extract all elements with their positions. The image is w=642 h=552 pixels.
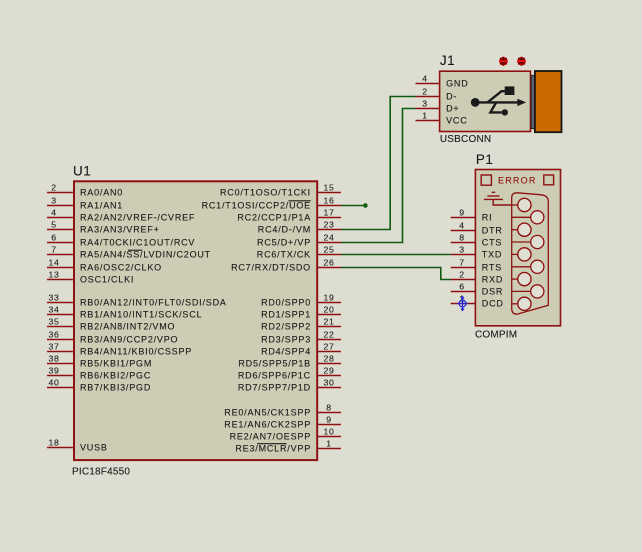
svg-text:RB0/AN12/INT0/FLT0/SDI/SDA: RB0/AN12/INT0/FLT0/SDI/SDA: [80, 298, 227, 308]
svg-text:40: 40: [48, 378, 59, 388]
svg-text:38: 38: [48, 354, 59, 364]
svg-text:36: 36: [48, 330, 59, 340]
svg-text:RA6/OSC2/CLKO: RA6/OSC2/CLKO: [80, 263, 162, 273]
svg-text:RC1/T1OSI/CCP2/UOE: RC1/T1OSI/CCP2/UOE: [202, 201, 311, 211]
svg-text:D-: D-: [446, 92, 457, 102]
svg-text:5: 5: [51, 220, 57, 230]
svg-text:4: 4: [422, 74, 428, 84]
svg-text:RB1/AN10/INT1/SCK/SCL: RB1/AN10/INT1/SCK/SCL: [80, 310, 202, 320]
svg-text:RA3/AN3/VREF+: RA3/AN3/VREF+: [80, 225, 160, 235]
svg-text:29: 29: [323, 366, 334, 376]
svg-text:3: 3: [459, 245, 465, 255]
svg-text:1: 1: [326, 439, 332, 449]
svg-text:15: 15: [323, 183, 334, 193]
svg-text:24: 24: [323, 233, 334, 243]
svg-text:RA4/T0CKI/C1OUT/RCV: RA4/T0CKI/C1OUT/RCV: [80, 238, 195, 248]
svg-text:37: 37: [48, 342, 59, 352]
svg-text:RB4/AN11/KBI0/CSSPP: RB4/AN11/KBI0/CSSPP: [80, 347, 192, 357]
svg-text:2: 2: [459, 270, 465, 280]
svg-text:RE3/MCLR/VPP: RE3/MCLR/VPP: [235, 444, 311, 454]
svg-text:7: 7: [459, 258, 465, 268]
svg-text:RD2/SPP2: RD2/SPP2: [261, 322, 311, 332]
svg-text:14: 14: [48, 258, 59, 268]
svg-text:26: 26: [323, 258, 334, 268]
svg-text:23: 23: [323, 220, 334, 230]
svg-text:8: 8: [326, 403, 332, 413]
svg-text:ERROR: ERROR: [498, 176, 537, 186]
svg-text:USBCONN: USBCONN: [440, 134, 491, 145]
svg-text:20: 20: [323, 305, 334, 315]
svg-text:33: 33: [48, 293, 59, 303]
svg-text:39: 39: [48, 366, 59, 376]
svg-text:GND: GND: [446, 79, 468, 89]
svg-text:DCD: DCD: [482, 299, 504, 309]
svg-text:2: 2: [422, 87, 428, 97]
svg-text:RD1/SPP1: RD1/SPP1: [261, 310, 311, 320]
svg-text:TXD: TXD: [482, 250, 502, 260]
svg-text:10: 10: [323, 427, 334, 437]
svg-text:34: 34: [48, 305, 59, 315]
svg-text:25: 25: [323, 245, 334, 255]
svg-text:RC6/TX/CK: RC6/TX/CK: [257, 250, 311, 260]
svg-text:4: 4: [51, 208, 57, 218]
svg-text:2: 2: [51, 183, 57, 193]
svg-text:RC4/D-/VM: RC4/D-/VM: [258, 225, 311, 235]
svg-text:RD4/SPP4: RD4/SPP4: [261, 347, 311, 357]
svg-text:16: 16: [323, 196, 334, 206]
svg-text:RA5/AN4/SS/LVDIN/C2OUT: RA5/AN4/SS/LVDIN/C2OUT: [80, 250, 211, 260]
svg-text:J1: J1: [440, 53, 455, 68]
svg-text:CTS: CTS: [482, 238, 502, 248]
svg-text:RA2/AN2/VREF-/CVREF: RA2/AN2/VREF-/CVREF: [80, 213, 195, 223]
svg-text:RXD: RXD: [482, 275, 503, 285]
svg-text:RC5/D+/VP: RC5/D+/VP: [257, 238, 311, 248]
svg-text:RE1/AN6/CK2SPP: RE1/AN6/CK2SPP: [224, 420, 311, 430]
svg-text:U1: U1: [73, 164, 91, 179]
svg-text:18: 18: [48, 438, 59, 448]
svg-text:VUSB: VUSB: [80, 443, 108, 453]
svg-text:19: 19: [323, 293, 334, 303]
svg-text:RB5/KBI1/PGM: RB5/KBI1/PGM: [80, 359, 152, 369]
svg-text:RA0/AN0: RA0/AN0: [80, 188, 123, 198]
svg-text:6: 6: [51, 233, 57, 243]
svg-text:RD6/SPP6/P1C: RD6/SPP6/P1C: [238, 371, 311, 381]
svg-text:17: 17: [323, 208, 334, 218]
svg-text:RB7/KBI3/PGD: RB7/KBI3/PGD: [80, 383, 151, 393]
svg-text:DTR: DTR: [482, 226, 503, 236]
svg-text:RD7/SPP7/P1D: RD7/SPP7/P1D: [238, 383, 311, 393]
svg-text:9: 9: [459, 208, 465, 218]
svg-text:RD5/SPP5/P1B: RD5/SPP5/P1B: [238, 359, 311, 369]
svg-text:PIC18F4550: PIC18F4550: [72, 467, 130, 478]
svg-text:RE2/AN7/OESPP: RE2/AN7/OESPP: [230, 432, 311, 442]
svg-text:13: 13: [48, 270, 59, 280]
svg-text:7: 7: [51, 245, 57, 255]
svg-text:RC7/RX/DT/SDO: RC7/RX/DT/SDO: [231, 263, 311, 273]
svg-text:RD3/SPP3: RD3/SPP3: [261, 335, 311, 345]
svg-text:35: 35: [48, 317, 59, 327]
svg-text:3: 3: [422, 99, 428, 109]
svg-text:RB2/AN8/INT2/VMO: RB2/AN8/INT2/VMO: [80, 322, 175, 332]
svg-text:9: 9: [326, 415, 332, 425]
svg-text:RC0/T1OSO/T1CKI: RC0/T1OSO/T1CKI: [220, 188, 311, 198]
svg-text:22: 22: [323, 330, 334, 340]
svg-text:3: 3: [51, 196, 57, 206]
svg-text:D+: D+: [446, 104, 459, 114]
svg-text:RD0/SPP0: RD0/SPP0: [261, 298, 311, 308]
svg-text:VCC: VCC: [446, 116, 467, 126]
svg-text:COMPIM: COMPIM: [475, 330, 517, 341]
svg-text:28: 28: [323, 354, 334, 364]
svg-text:DSR: DSR: [482, 287, 503, 297]
svg-text:P1: P1: [476, 152, 494, 167]
svg-text:1: 1: [422, 111, 428, 121]
svg-text:30: 30: [323, 378, 334, 388]
svg-text:8: 8: [459, 233, 465, 243]
svg-text:RC2/CCP1/P1A: RC2/CCP1/P1A: [237, 213, 311, 223]
svg-text:RB3/AN9/CCP2/VPO: RB3/AN9/CCP2/VPO: [80, 335, 178, 345]
svg-text:RA1/AN1: RA1/AN1: [80, 201, 123, 211]
svg-text:RB6/KBI2/PGC: RB6/KBI2/PGC: [80, 371, 151, 381]
svg-text:27: 27: [323, 342, 334, 352]
svg-text:RTS: RTS: [482, 263, 502, 273]
svg-text:6: 6: [459, 282, 465, 292]
svg-text:RE0/AN5/CK1SPP: RE0/AN5/CK1SPP: [224, 408, 311, 418]
svg-text:OSC1/CLKI: OSC1/CLKI: [80, 275, 134, 285]
svg-text:4: 4: [459, 221, 465, 231]
svg-text:21: 21: [323, 317, 334, 327]
svg-text:RI: RI: [482, 213, 493, 223]
